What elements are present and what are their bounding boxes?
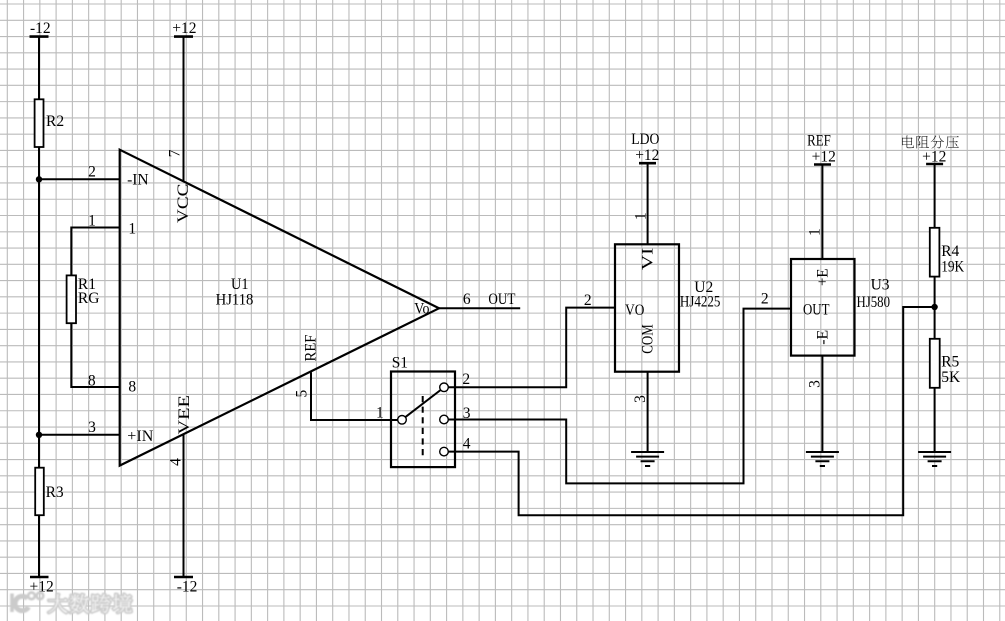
svg-text:RG: RG bbox=[78, 290, 100, 307]
svg-text:-E: -E bbox=[814, 330, 831, 345]
svg-text:HJ4225: HJ4225 bbox=[680, 293, 721, 310]
svg-text:8: 8 bbox=[128, 378, 136, 395]
watermark text bbox=[48, 594, 67, 613]
ground U2 bbox=[631, 452, 664, 466]
ground R5 bbox=[918, 452, 951, 466]
svg-text:R4: R4 bbox=[941, 243, 959, 260]
svg-text:+E: +E bbox=[814, 269, 831, 287]
svg-text:1: 1 bbox=[88, 213, 96, 230]
resistor R5 5K bbox=[930, 339, 940, 388]
wire pin2 bbox=[39, 178, 120, 180]
svg-text:VEE: VEE bbox=[176, 395, 193, 435]
svg-text:19K: 19K bbox=[941, 258, 965, 275]
wire pin1 / R1 / pin8 bbox=[71, 228, 119, 388]
power bar -12 VEE bbox=[174, 576, 193, 579]
IC U2 HJ4225 box bbox=[615, 244, 679, 371]
svg-text:5: 5 bbox=[294, 389, 311, 397]
svg-text:VCC: VCC bbox=[175, 184, 192, 223]
svg-text:R5: R5 bbox=[941, 354, 959, 371]
svg-text:3: 3 bbox=[807, 380, 824, 388]
svg-text:2: 2 bbox=[761, 291, 769, 308]
svg-text:VO: VO bbox=[625, 302, 644, 319]
svg-text:Vo: Vo bbox=[414, 300, 429, 317]
S1 lever bbox=[405, 390, 440, 417]
wire U2 pin3 bbox=[647, 372, 649, 452]
svg-text:1: 1 bbox=[128, 220, 136, 237]
resistor R3 bbox=[35, 468, 44, 516]
power bar LDO bbox=[639, 162, 656, 165]
wire U2 pin1 bbox=[647, 163, 649, 244]
svg-text:2: 2 bbox=[584, 292, 592, 309]
wire S1 pin2 to U2 bbox=[448, 308, 615, 388]
svg-text:+12: +12 bbox=[172, 20, 196, 37]
svg-text:6: 6 bbox=[463, 291, 471, 308]
svg-text:REF: REF bbox=[303, 334, 320, 361]
svg-text:COM: COM bbox=[639, 324, 656, 354]
svg-text:LDO: LDO bbox=[631, 131, 659, 148]
svg-text:4: 4 bbox=[463, 436, 471, 453]
power bar -12 top bbox=[30, 35, 49, 38]
wire pin6 OUT bbox=[439, 307, 520, 309]
wire S1 pin4 to divider bbox=[448, 307, 934, 515]
svg-text:3: 3 bbox=[88, 419, 96, 436]
watermark logo bbox=[10, 593, 131, 613]
switch S1 box bbox=[391, 372, 455, 468]
S1 contact pin1 bbox=[398, 416, 407, 425]
ground U3 bbox=[806, 452, 839, 466]
resistor R4 19K bbox=[930, 228, 940, 277]
power bar REF bbox=[814, 163, 831, 166]
wire pin5 REF to S1 bbox=[311, 372, 398, 420]
svg-text:-12: -12 bbox=[177, 579, 198, 596]
svg-text:1: 1 bbox=[376, 404, 384, 421]
svg-text:+12: +12 bbox=[812, 149, 836, 166]
wire divider column bbox=[934, 164, 936, 452]
wire left rail bbox=[38, 37, 40, 577]
svg-text:HJ118: HJ118 bbox=[216, 292, 254, 309]
node junction +IN bbox=[36, 432, 42, 438]
node divider junction bbox=[931, 304, 937, 310]
power bar divider bbox=[926, 163, 943, 166]
resistor R1 RG bbox=[67, 275, 76, 323]
IC U3 HJ580 box bbox=[791, 259, 855, 356]
wire S1 pin3 to U3 bbox=[448, 309, 791, 484]
op-amp U1 HJ118 triangle bbox=[120, 150, 439, 466]
node junction -IN bbox=[36, 176, 42, 182]
power bar +12 bottom-left bbox=[30, 576, 49, 579]
wire U3 pin3 bbox=[821, 356, 823, 452]
label dianzu fenya bbox=[902, 136, 914, 149]
svg-text:4: 4 bbox=[168, 458, 185, 466]
svg-text:S1: S1 bbox=[392, 355, 408, 372]
svg-text:2: 2 bbox=[88, 163, 96, 180]
svg-text:R2: R2 bbox=[46, 113, 64, 130]
svg-text:-IN: -IN bbox=[127, 172, 149, 189]
S1 contact pin2 bbox=[440, 383, 449, 392]
svg-text:U3: U3 bbox=[871, 277, 890, 294]
wire pin7 VCC bbox=[183, 37, 185, 182]
svg-text:VI: VI bbox=[639, 248, 656, 271]
svg-text:7: 7 bbox=[166, 149, 183, 157]
S1 contact pin3 bbox=[440, 415, 449, 424]
svg-text:OUT: OUT bbox=[488, 291, 515, 308]
svg-text:8: 8 bbox=[88, 373, 96, 390]
svg-text:1: 1 bbox=[632, 212, 649, 220]
wire pin3 bbox=[39, 434, 120, 436]
svg-text:U1: U1 bbox=[231, 276, 249, 293]
svg-text:2: 2 bbox=[462, 371, 470, 388]
svg-text:3: 3 bbox=[632, 395, 649, 403]
S1 contact pin4 bbox=[440, 447, 449, 456]
svg-text:-12: -12 bbox=[30, 20, 51, 37]
wire pin4 VEE bbox=[183, 434, 185, 577]
svg-text:R3: R3 bbox=[46, 484, 64, 501]
svg-text:5K: 5K bbox=[941, 369, 961, 386]
svg-text:OUT: OUT bbox=[803, 302, 830, 319]
svg-text:HJ580: HJ580 bbox=[857, 294, 891, 311]
svg-text:1: 1 bbox=[807, 228, 824, 236]
svg-text:REF: REF bbox=[807, 132, 831, 149]
S1 dashed line bbox=[422, 396, 424, 459]
svg-text:+IN: +IN bbox=[127, 428, 153, 445]
resistor R2 bbox=[35, 99, 44, 147]
svg-text:+12: +12 bbox=[635, 147, 659, 164]
power bar +12 VCC bbox=[174, 35, 193, 38]
wire U3 pin1 bbox=[821, 165, 823, 260]
